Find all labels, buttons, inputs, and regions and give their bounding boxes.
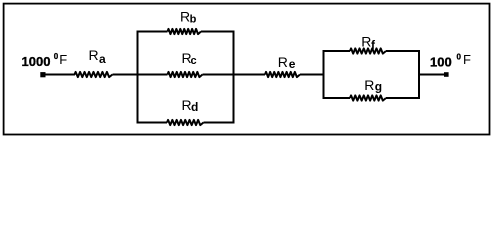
svg-text:F: F — [59, 52, 67, 67]
svg-text:0: 0 — [54, 52, 59, 61]
svg-text:0: 0 — [457, 53, 462, 62]
wire (right bus of parallel group 1) — [233, 31, 235, 124]
wire (top branch left segment) — [137, 31, 168, 33]
wire (top branch right segment) — [201, 31, 235, 33]
resistor Rc — [168, 72, 203, 77]
wire (Rf branch right segment) — [386, 50, 420, 52]
resistor Re — [265, 72, 300, 77]
wire (Rg branch left segment) — [323, 97, 351, 99]
wire — [419, 74, 445, 76]
svg-text:R: R — [278, 54, 288, 70]
label Rg — [364, 77, 382, 94]
svg-text:a: a — [99, 52, 106, 66]
wire (left bus of parallel group 1) — [137, 31, 139, 124]
wire (right bus of parallel group 2) — [418, 50, 420, 99]
svg-text:g: g — [375, 80, 382, 94]
wire (bottom branch right segment) — [204, 122, 235, 124]
wire — [234, 74, 266, 76]
node T2 (100F terminal) — [444, 72, 449, 77]
wire (bottom branch left segment) — [137, 122, 168, 124]
svg-text:R: R — [180, 8, 190, 24]
label Ra — [89, 47, 107, 66]
resistor Rg — [350, 95, 386, 100]
value label 100 F (right boundary temperature) — [430, 52, 471, 70]
wire (middle branch left segment) — [138, 74, 168, 76]
svg-text:R: R — [361, 33, 371, 49]
node T1 (1000F terminal) — [40, 72, 45, 77]
label Rf — [361, 33, 376, 52]
wire — [45, 74, 75, 76]
wire (left bus of parallel group 2) — [323, 50, 325, 99]
svg-text:1000: 1000 — [22, 54, 51, 69]
wire (Rg branch right segment) — [386, 97, 420, 99]
wire — [113, 74, 139, 76]
svg-text:100: 100 — [430, 55, 452, 70]
label Rb — [180, 8, 197, 25]
resistor Ra — [75, 72, 113, 77]
resistor Rd — [167, 120, 204, 125]
svg-text:R: R — [89, 47, 99, 63]
value label 1000 F (left boundary temperature) — [22, 52, 68, 69]
svg-text:c: c — [191, 55, 197, 67]
svg-text:d: d — [191, 100, 198, 114]
wire (middle branch right segment) — [203, 74, 234, 76]
label Rc — [182, 50, 197, 67]
resistor Rf — [350, 48, 386, 53]
svg-text:R: R — [364, 77, 374, 93]
svg-text:e: e — [289, 57, 296, 71]
resistor Rb — [168, 29, 202, 34]
svg-text:b: b — [190, 13, 197, 25]
label Rd — [182, 97, 199, 114]
wire (Rf branch left segment) — [323, 50, 351, 52]
wire — [300, 74, 325, 76]
label Re — [278, 54, 296, 71]
svg-text:F: F — [463, 52, 471, 67]
